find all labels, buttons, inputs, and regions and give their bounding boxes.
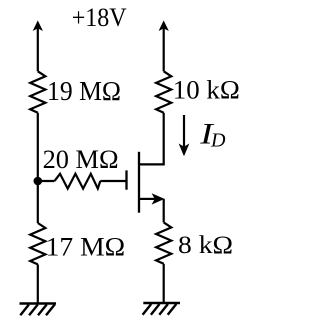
svg-text:8 kΩ: 8 kΩ <box>178 232 233 259</box>
svg-text:19 MΩ: 19 MΩ <box>47 76 121 106</box>
MOSFET Q1 channel line <box>138 152 140 213</box>
svg-text:+18V: +18V <box>72 3 127 32</box>
wire from node A down to R2 <box>37 181 39 223</box>
wire from RG right to gate <box>100 180 125 182</box>
resistor R1 19 MOhm zigzag <box>30 71 45 112</box>
arrowhead left supply arrow <box>34 22 41 29</box>
wire left branch up to supply <box>37 28 39 71</box>
arrowhead right supply arrow <box>160 22 167 29</box>
svg-text:17 MΩ: 17 MΩ <box>46 232 126 261</box>
MOSFET Q1 gate bar <box>125 170 127 189</box>
ground symbol left <box>20 304 57 316</box>
ground symbol right <box>143 303 180 315</box>
wire from node A right to RG <box>38 180 55 182</box>
svg-text:10 kΩ: 10 kΩ <box>173 75 240 105</box>
svg-text:20 MΩ: 20 MΩ <box>43 144 119 174</box>
resistor RG 20 MOhm horizontal zigzag <box>55 174 101 189</box>
arrowhead I_D <box>180 145 188 154</box>
resistor RS 8 kOhm zigzag <box>156 222 171 263</box>
svg-text:D: D <box>210 129 226 151</box>
current arrow I_D stem <box>183 115 185 147</box>
wire from RS down to ground <box>163 264 165 303</box>
wire from R2 down to ground <box>37 264 39 303</box>
MOSFET source arrowhead <box>153 195 163 203</box>
wire from R1 down to node A <box>37 113 39 181</box>
resistor R2 17 MOhm zigzag <box>30 223 45 264</box>
wire right branch up to supply <box>163 28 165 71</box>
MOSFET Q1 source lead <box>139 198 155 200</box>
wire from source arrow down to RS <box>163 199 165 223</box>
resistor RD 10 kOhm zigzag <box>156 71 171 112</box>
MOSFET Q1 drain lead <box>139 113 164 165</box>
node A junction dot <box>34 177 43 186</box>
